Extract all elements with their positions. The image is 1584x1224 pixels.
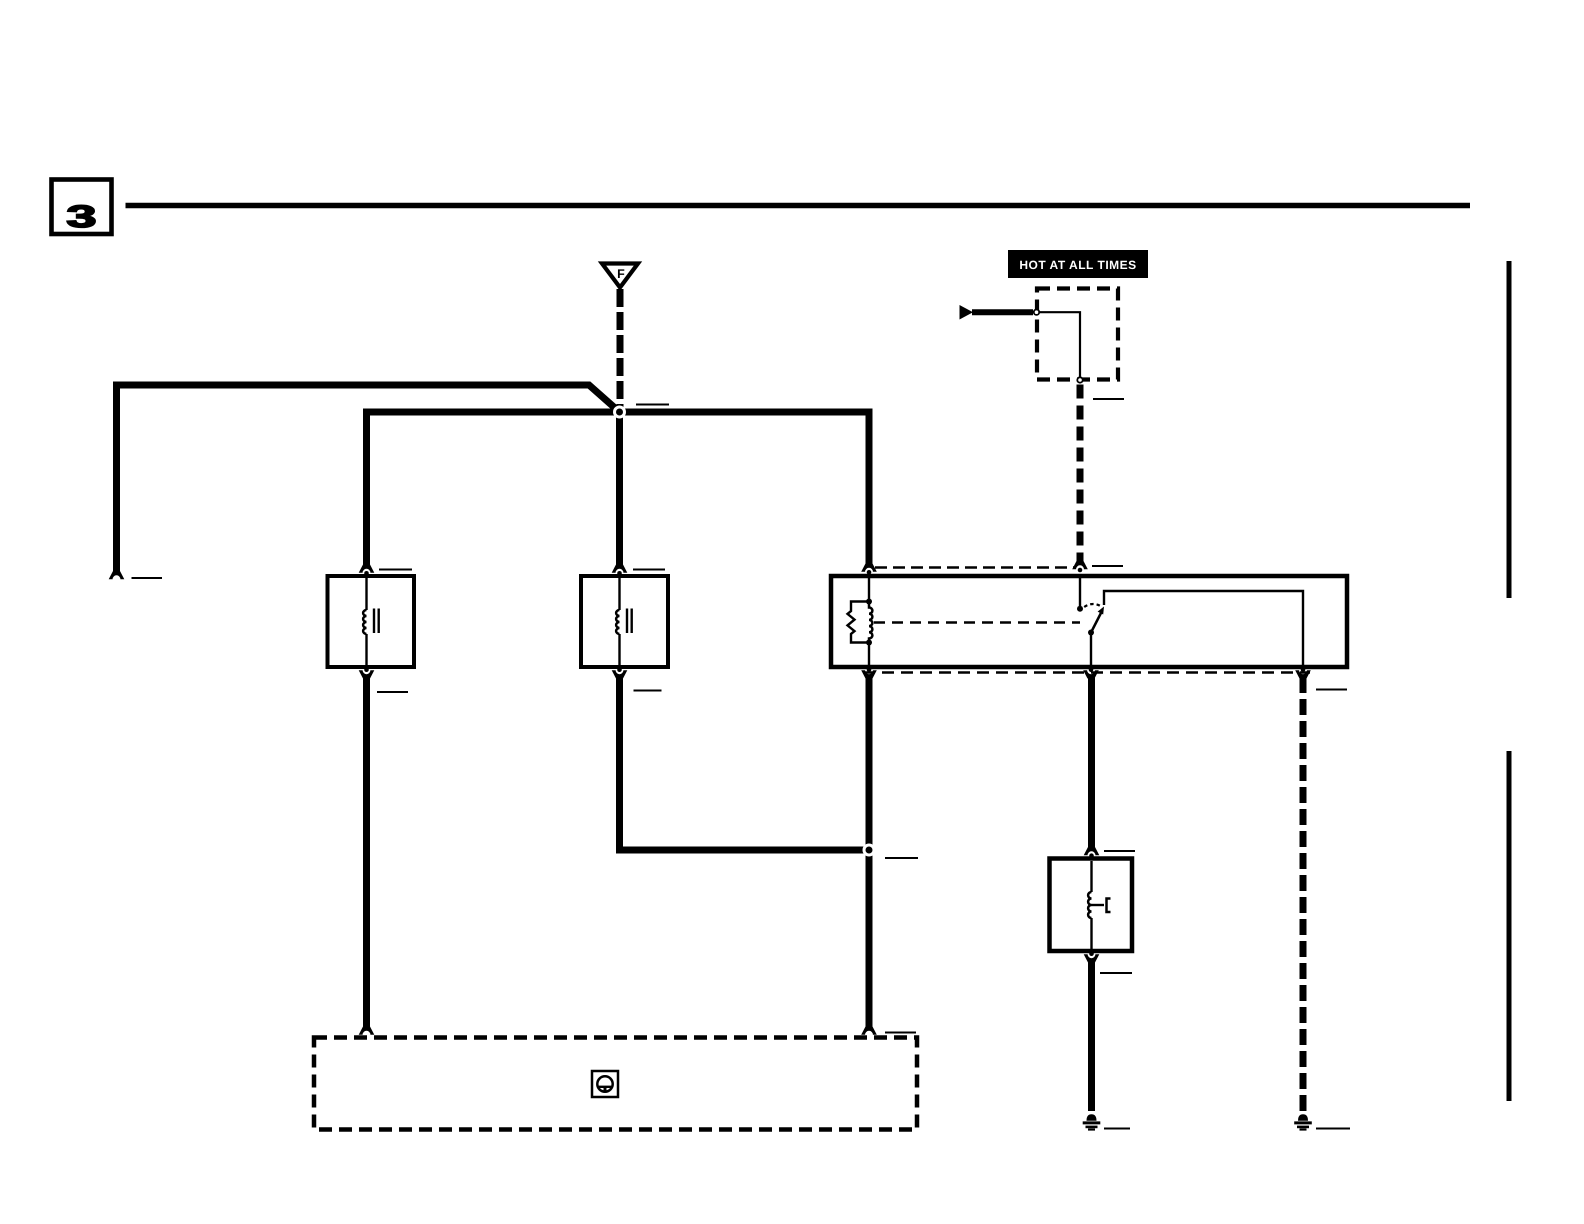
svg-text:F: F: [617, 267, 625, 281]
svg-text:HOT AT ALL TIMES: HOT AT ALL TIMES: [1019, 258, 1136, 272]
svg-text:3: 3: [66, 199, 96, 234]
